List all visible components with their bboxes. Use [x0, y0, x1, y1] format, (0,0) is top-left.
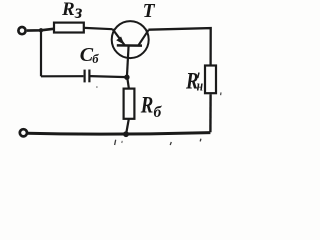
svg-text:з: з: [74, 2, 83, 24]
svg-text:б: б: [154, 104, 163, 121]
svg-text:R: R: [61, 0, 75, 20]
svg-text:T: T: [143, 1, 156, 22]
svg-text:б: б: [92, 52, 99, 66]
svg-text:R: R: [140, 92, 153, 118]
svg-text:н: н: [197, 77, 203, 94]
